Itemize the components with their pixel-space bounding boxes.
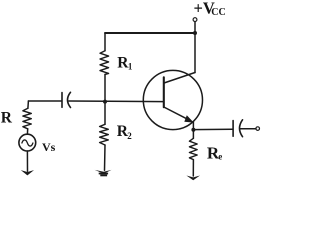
svg-text:2: 2: [127, 131, 132, 141]
svg-text:1: 1: [128, 62, 133, 72]
svg-text:R: R: [1, 110, 13, 127]
svg-text:Vs: Vs: [42, 140, 56, 154]
svg-text:CC: CC: [211, 7, 225, 18]
svg-text:e: e: [218, 151, 222, 161]
